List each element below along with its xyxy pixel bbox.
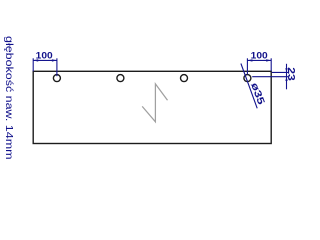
hole 3 (181, 75, 188, 82)
dimension 23: lower extension line (hole centre level) (252, 76, 288, 78)
hole 4 (244, 75, 251, 82)
dimension 23: vertical dimension line (286, 64, 288, 90)
left dimension 100: left arrow (33, 59, 38, 61)
right dimension 100: left arrow (247, 59, 252, 61)
dimension 23: upper extension line (top edge level) (272, 71, 288, 73)
hole 1 (53, 75, 60, 82)
left dimension 100: extension line at left edge (32, 58, 34, 71)
right dimension 100: dimension line (247, 59, 271, 61)
break mark (gray zigzag) (142, 84, 167, 122)
left dimension 100: extension line at hole 1 (56, 58, 58, 76)
plate outline (main rectangle) (33, 71, 271, 143)
dimension 23: upper arrow (285, 68, 287, 72)
svg-text:23: 23 (285, 67, 296, 81)
hole diameter leader line (241, 64, 257, 109)
left dimension 100: dimension line (33, 59, 57, 61)
hole 2 (117, 75, 124, 82)
svg-text:głębokość naw. 14mm: głębokość naw. 14mm (3, 36, 14, 160)
left dimension 100: right arrow (52, 59, 57, 61)
right dimension 100: extension line at hole 4 (246, 58, 248, 74)
svg-text:100: 100 (251, 50, 268, 60)
right dimension 100: extension line at right edge (270, 58, 272, 71)
right dimension 100: right arrow (266, 59, 271, 61)
dimension 23: lower arrow (285, 77, 287, 81)
svg-text:100: 100 (36, 50, 53, 60)
